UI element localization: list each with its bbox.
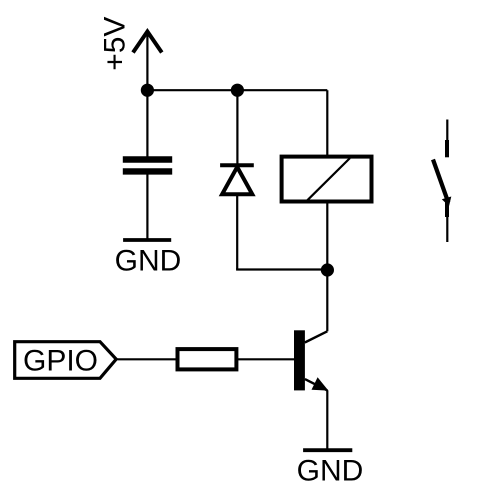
diode D1 flyback — [220, 165, 254, 194]
wire emitter to ground — [326, 390, 328, 449]
wire node to collector — [326, 270, 328, 331]
wire +5V stem — [146, 32, 148, 91]
wire junction to capacitor — [146, 90, 148, 157]
wire GPIO to resistor — [118, 358, 178, 360]
wire diode to relay node — [236, 268, 327, 270]
wire top horizontal bus — [147, 89, 327, 91]
svg-text:+5V: +5V — [99, 17, 132, 71]
ground GND right — [297, 450, 364, 487]
node junction at diode — [231, 84, 244, 97]
transistor Q1 base bar — [294, 330, 305, 390]
wire capacitor to ground — [146, 174, 148, 240]
wire bus to relay coil — [326, 90, 328, 156]
wire resistor to base — [238, 358, 295, 360]
node junction at capacitor — [141, 84, 154, 97]
resistor R1 — [178, 349, 237, 369]
svg-text:GPIO: GPIO — [23, 344, 98, 377]
ground GND left — [115, 240, 182, 278]
wire diode anode down — [236, 196, 238, 270]
svg-text:GND: GND — [297, 454, 364, 487]
power symbol +5V — [99, 17, 162, 71]
switch SW1 relay contact — [433, 120, 451, 243]
wire relay coil to node — [326, 202, 328, 270]
relay K1 coil — [282, 157, 372, 202]
svg-text:GND: GND — [115, 245, 182, 278]
transistor Q1 emitter lead with arrow — [305, 377, 329, 390]
node junction relay/diode/collector — [321, 263, 334, 276]
wire junction to diode — [236, 90, 238, 165]
transistor Q1 collector lead — [305, 331, 328, 342]
capacitor C1 — [123, 160, 172, 172]
label GPIO input tag — [15, 342, 117, 379]
